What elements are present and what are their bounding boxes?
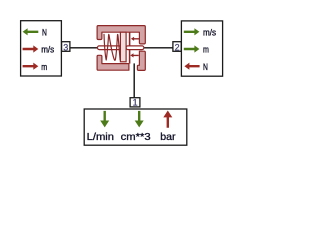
svg-text:m/s: m/s	[41, 45, 54, 55]
svg-text:m: m	[203, 45, 209, 55]
cylinder top bracket (top bar + side stubs)	[97, 26, 145, 44]
port 2 box	[173, 42, 181, 52]
bottom box col2 green down arrow	[135, 111, 144, 128]
right box row2 green arrow (right)	[184, 45, 200, 52]
wire cylinder to port2	[144, 47, 174, 49]
svg-text:N: N	[203, 62, 208, 72]
left box row2 red arrow (right)	[23, 45, 39, 52]
piston rod left	[97, 46, 120, 50]
right box row3 red arrow (left)	[184, 63, 199, 70]
svg-text:m/s: m/s	[203, 27, 216, 37]
svg-text:cm**3: cm**3	[121, 132, 151, 143]
left signal box	[21, 21, 62, 76]
port 3 box	[62, 42, 70, 52]
left box row1 green arrow (left)	[23, 28, 39, 35]
wire port3 to cylinder	[70, 47, 98, 49]
right box row1 green arrow (right)	[184, 28, 200, 35]
wire cylinder to port1	[133, 63, 135, 98]
right signal box	[181, 21, 222, 76]
bottom box col3 red up arrow	[163, 111, 172, 128]
svg-text:N: N	[42, 27, 47, 37]
svg-text:L/min: L/min	[87, 132, 114, 143]
hydraulic cylinder icon	[97, 26, 145, 71]
cylinder bottom-left bracket	[97, 55, 129, 70]
piston	[120, 32, 126, 62]
svg-text:bar: bar	[160, 132, 176, 143]
svg-text:1: 1	[133, 97, 138, 107]
piston rod right	[126, 46, 144, 50]
pressure arrow lower (left)	[130, 53, 138, 57]
chamber left wall	[129, 32, 131, 63]
svg-text:2: 2	[175, 42, 180, 52]
spring coil	[104, 34, 120, 60]
cylinder bottom-right boot	[137, 51, 145, 70]
bottom signal box	[84, 109, 187, 145]
bottom box col1 green down arrow	[100, 111, 109, 128]
left box row3 red arrow (right)	[23, 63, 39, 70]
svg-text:3: 3	[63, 42, 68, 52]
pressure arrow upper (left)	[131, 37, 139, 41]
svg-text:m: m	[41, 62, 47, 72]
port 1 box	[130, 98, 140, 107]
